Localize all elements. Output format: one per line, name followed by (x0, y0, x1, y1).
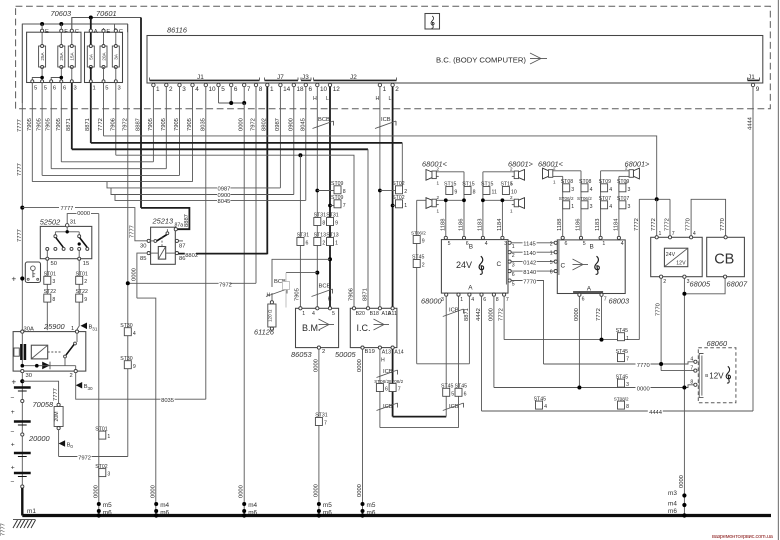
svg-text:8045: 8045 (300, 118, 306, 131)
svg-text:7972: 7972 (251, 118, 257, 131)
svg-text:J1: J1 (748, 74, 755, 81)
wire 8045 (115, 195, 306, 201)
svg-text:m5: m5 (103, 502, 112, 509)
svg-text:+: + (11, 409, 15, 416)
svg-text:8045: 8045 (218, 199, 231, 205)
svg-text:7972: 7972 (219, 282, 232, 288)
wire rear right top (601, 170, 627, 172)
svg-text:0000: 0000 (357, 484, 363, 497)
svg-text:7777: 7777 (17, 229, 23, 242)
svg-text:7905: 7905 (46, 118, 52, 131)
svg-text:A14: A14 (394, 350, 403, 356)
relay pin 85 (147, 252, 150, 255)
wire 0000 68003 pin6 (578, 296, 580, 387)
wire BCB H column (316, 87, 318, 307)
svg-text:1184: 1184 (613, 218, 619, 231)
svg-text:+: + (11, 442, 15, 449)
relay pin 30 (147, 239, 150, 242)
fusebox feed wire top (22, 24, 127, 103)
wire 7905 J1 pin3 (179, 87, 181, 176)
speaker woofer front left (426, 195, 440, 214)
svg-text:3: 3 (512, 263, 515, 269)
fuse 25A E (39, 24, 49, 83)
svg-text:B.M.: B.M. (302, 323, 321, 333)
speaker tweeter front right (510, 167, 525, 186)
68005 bottom pins (660, 275, 663, 278)
68003 left pins (554, 241, 557, 244)
svg-text:25A: 25A (59, 51, 64, 60)
svg-text:3: 3 (590, 204, 593, 210)
svg-text:A13: A13 (382, 350, 391, 356)
fuse E bottom tee to pin 5 (32, 78, 42, 82)
svg-text:20000: 20000 (28, 434, 50, 443)
fuse group box 70603 (27, 32, 81, 82)
svg-text:30A: 30A (24, 327, 34, 333)
wire 1184 column (501, 200, 503, 238)
svg-text:1186: 1186 (576, 219, 582, 231)
svg-text:0000: 0000 (488, 308, 494, 321)
svg-text:C: C (497, 261, 502, 268)
fuse F bottom tee to pin 6 (51, 78, 61, 82)
wire 0000 from relay 85 (137, 253, 147, 298)
wire 0900 column (293, 87, 295, 195)
svg-text:3: 3 (74, 86, 77, 92)
flag B0 (59, 440, 66, 447)
svg-text:0000: 0000 (357, 359, 363, 372)
svg-text:ICB: ICB (381, 117, 391, 123)
wire CB to 0000 node (684, 278, 725, 294)
svg-text:30: 30 (26, 373, 32, 379)
svg-text:1: 1 (571, 204, 574, 210)
68000 right strip (505, 241, 507, 285)
svg-text:5: 5 (332, 311, 335, 317)
svg-text:m4: m4 (668, 501, 677, 508)
svg-text:7772: 7772 (98, 118, 104, 131)
wire 68000 pin3 column (445, 296, 447, 417)
svg-text:7: 7 (604, 297, 607, 303)
antenna clef box (425, 14, 440, 30)
svg-text:7772: 7772 (665, 218, 671, 231)
K symbol BM (319, 319, 335, 330)
wire 8887 column (140, 18, 142, 208)
svg-text:31: 31 (70, 220, 76, 226)
svg-text:B20: B20 (356, 311, 365, 317)
wire 7770 to 68060 pin7 (661, 370, 694, 372)
svg-text:J7: J7 (277, 74, 284, 81)
svg-text:3: 3 (107, 472, 110, 478)
fuse 25A F (58, 24, 68, 83)
svg-text:7905: 7905 (56, 118, 62, 131)
svg-text:3: 3 (118, 86, 121, 92)
wire 7772 lower link (504, 339, 639, 341)
svg-text:1183: 1183 (477, 219, 483, 231)
svg-text:ST06/2: ST06/2 (411, 231, 426, 236)
IC top pins (352, 307, 355, 310)
wire 7905 a (31, 83, 33, 182)
svg-text:H: H (267, 293, 271, 299)
svg-text:2: 2 (169, 86, 173, 93)
switch contacts inside 52502 (66, 227, 68, 232)
svg-text:7905: 7905 (148, 118, 154, 131)
wire 4444 line (482, 410, 754, 412)
IC pin B19 ground (361, 346, 364, 349)
svg-text:15A: 15A (70, 51, 75, 60)
svg-text:8: 8 (473, 190, 476, 196)
svg-text:ST08/2: ST08/2 (388, 379, 403, 384)
IC pin A14 (391, 346, 394, 349)
svg-text:7: 7 (672, 231, 675, 237)
wire 4444 pin9 column (752, 87, 754, 411)
svg-text:1: 1 (437, 181, 440, 186)
svg-text:1: 1 (335, 241, 338, 247)
body computer box 86116 (147, 36, 763, 84)
svg-text:6: 6 (234, 86, 238, 93)
svg-text:4: 4 (312, 311, 315, 317)
68003 top pins (561, 236, 564, 239)
J1 pins 1-8,10 (152, 83, 263, 93)
svg-text:8871: 8871 (85, 118, 91, 131)
svg-text:1: 1 (71, 326, 74, 332)
wire 7905 J1 pin2 (165, 87, 167, 169)
wire 7772 68003 pin7 (601, 296, 603, 339)
svg-text:2: 2 (70, 373, 73, 379)
J7 pins (266, 83, 304, 93)
svg-text:m4: m4 (248, 502, 257, 509)
svg-text:14: 14 (283, 86, 291, 93)
svg-text:4: 4 (609, 187, 612, 193)
svg-text:7905: 7905 (174, 118, 180, 131)
wire 8802 relay to J7 (179, 253, 268, 255)
svg-text:1: 1 (602, 241, 605, 247)
wire 0987 column (279, 87, 281, 188)
fuse 20A E (100, 28, 110, 83)
svg-text:7: 7 (247, 86, 251, 93)
svg-text:68001>: 68001> (625, 160, 651, 169)
wire 7770 main line (544, 362, 694, 364)
svg-text:8: 8 (690, 380, 693, 386)
svg-text:5: 5 (44, 86, 47, 92)
wire 68000 pin1 column (458, 296, 460, 428)
svg-text:9: 9 (84, 297, 87, 303)
battery to ground bus (21, 488, 23, 516)
svg-text:0142: 0142 (523, 260, 536, 266)
svg-text:7: 7 (506, 297, 509, 303)
svg-text:m5: m5 (367, 502, 376, 509)
svg-text:C: C (561, 263, 566, 270)
pin 30 of 25900 (21, 370, 24, 373)
svg-text:4444: 4444 (748, 116, 754, 130)
wire rear right bottom (619, 175, 627, 177)
svg-text:5A: 5A (89, 53, 94, 60)
wire 0000 ground column m4 (137, 298, 156, 515)
svg-text:A11: A11 (388, 311, 397, 317)
wire 61126 branch from L (328, 257, 332, 261)
svg-text:1: 1 (156, 86, 160, 93)
svg-text:9: 9 (756, 86, 760, 93)
svg-text:5: 5 (550, 260, 553, 266)
svg-text:20M: 20M (54, 411, 60, 421)
node fuse F feed (59, 22, 63, 26)
wire speaker bottom left (417, 199, 426, 201)
svg-text:8: 8 (626, 404, 629, 410)
wire 7772 radio pin7 (503, 296, 505, 339)
K symbol IC (374, 319, 390, 330)
svg-text:12V: 12V (676, 261, 686, 267)
svg-text:4: 4 (195, 86, 199, 93)
J2 pins (316, 83, 400, 93)
wire 7905 link to J1 pin3 (42, 174, 179, 176)
svg-text:7777: 7777 (17, 119, 23, 132)
svg-text:1: 1 (626, 336, 629, 342)
svg-text:61126: 61126 (254, 328, 275, 337)
svg-text:68000: 68000 (421, 297, 442, 306)
connector strip J2 (314, 79, 397, 81)
wire 8802 column (266, 87, 268, 255)
svg-text:7: 7 (626, 357, 629, 363)
wire 0987 (107, 182, 280, 188)
68003 bottom pins (578, 293, 581, 296)
svg-text:BCB: BCB (318, 117, 330, 123)
connector strip J3 (301, 79, 311, 81)
svg-text:24V: 24V (666, 252, 676, 258)
connector ST02 2 (378, 189, 382, 193)
wire 4442 radio pin6 (481, 296, 483, 411)
svg-text:−: − (11, 479, 15, 486)
svg-text:86116: 86116 (167, 26, 188, 35)
wire 1186 column (463, 172, 465, 238)
svg-text:6: 6 (385, 387, 388, 393)
svg-text:J2: J2 (350, 74, 357, 81)
svg-text:4: 4 (690, 357, 693, 363)
svg-text:B19: B19 (365, 349, 375, 355)
svg-text:0000: 0000 (574, 308, 580, 321)
wire rear left top (555, 170, 581, 172)
svg-text:7905: 7905 (295, 288, 301, 301)
svg-text:0900: 0900 (288, 118, 294, 131)
svg-text:7770: 7770 (523, 279, 536, 285)
wire 7906 to IC B20 (116, 155, 354, 307)
svg-text:9: 9 (133, 364, 136, 370)
connector ST02 1 (391, 204, 395, 208)
svg-text:1: 1 (404, 203, 407, 209)
wire 1140 (511, 251, 554, 253)
wire 7972 bottom link (59, 456, 128, 458)
wire 1188 rear column (562, 176, 564, 238)
svg-text:5: 5 (34, 86, 37, 92)
svg-text:7772: 7772 (596, 308, 602, 321)
flag B31 (81, 323, 88, 330)
svg-text:B: B (469, 244, 473, 251)
svg-text:2: 2 (437, 195, 440, 200)
svg-text:H: H (313, 96, 317, 102)
relay switch contact (156, 234, 168, 241)
svg-text:ST08/2: ST08/2 (614, 396, 629, 401)
wire 8871 b (90, 83, 92, 143)
svg-text:2: 2 (404, 189, 407, 195)
svg-text:1140: 1140 (523, 251, 535, 257)
svg-text:ST06/2: ST06/2 (559, 196, 574, 201)
svg-text:F: F (64, 29, 68, 35)
svg-text:7772: 7772 (634, 218, 640, 231)
svg-text:0000: 0000 (93, 485, 99, 498)
wire ICB L column (392, 87, 394, 307)
wire 7772 (103, 83, 105, 136)
relay coil (158, 247, 165, 260)
svg-text:25213: 25213 (152, 216, 174, 225)
68000 top pins (444, 236, 447, 239)
wire 7770 from radio pin5 (511, 281, 543, 365)
svg-text:68007: 68007 (727, 280, 748, 289)
svg-text:E: E (45, 29, 49, 35)
svg-text:70603: 70603 (51, 9, 72, 18)
svg-text:30: 30 (88, 386, 94, 391)
node fuse A feed (89, 16, 93, 20)
svg-text:B18: B18 (370, 311, 379, 317)
svg-text:7777: 7777 (1, 523, 7, 536)
radio 68000 box (441, 240, 508, 294)
svg-text:10: 10 (320, 86, 328, 93)
wire 7772 branch b (656, 199, 658, 236)
clef glyph in box (431, 16, 434, 28)
svg-text:H: H (376, 96, 380, 102)
wire 8871 to IC B18 (72, 148, 368, 150)
svg-text:2: 2 (550, 241, 553, 247)
dashed body-computer enclosure (16, 6, 771, 109)
speaker tweeter front left (426, 167, 440, 186)
ground bus (22, 514, 771, 517)
svg-text:10: 10 (209, 86, 217, 93)
svg-text:6: 6 (550, 270, 553, 276)
svg-text:4: 4 (590, 187, 593, 193)
svg-text:−: − (11, 395, 15, 402)
svg-text:1: 1 (553, 179, 556, 184)
diode inside 25900 (42, 362, 50, 370)
svg-text:3: 3 (52, 279, 55, 285)
svg-text:52502: 52502 (40, 218, 61, 227)
svg-text:0000: 0000 (679, 475, 685, 488)
svg-text:70601: 70601 (96, 9, 117, 18)
svg-text:7770: 7770 (686, 218, 692, 231)
svg-text:8: 8 (322, 221, 325, 227)
pin 50 of 52502 (46, 250, 48, 330)
svg-text:5: 5 (105, 86, 108, 92)
clef 68060 (726, 366, 730, 383)
wire 8045 column (305, 87, 307, 201)
68003 left strip (558, 241, 560, 275)
svg-text:9: 9 (335, 221, 338, 227)
svg-text:7972: 7972 (78, 455, 91, 461)
svg-text:L: L (326, 96, 329, 102)
svg-text:68005: 68005 (690, 280, 711, 289)
wire 0000 ground column m5 (98, 214, 100, 516)
svg-text:8802: 8802 (185, 253, 198, 259)
svg-text:3: 3 (628, 187, 631, 193)
svg-text:9: 9 (422, 239, 425, 245)
fuse group box 70601 (85, 32, 123, 82)
svg-text:5: 5 (451, 391, 454, 397)
svg-text:1: 1 (659, 231, 662, 237)
battery 20000 (21, 388, 23, 489)
svg-text:31: 31 (92, 327, 98, 332)
sub box fuse C2 (115, 24, 128, 32)
svg-text:7972: 7972 (122, 118, 128, 131)
relay pin 87 (175, 239, 178, 242)
svg-text:2: 2 (512, 253, 515, 259)
connector strip J1 (150, 79, 260, 81)
wire 1188 column (445, 200, 447, 238)
svg-text:24V: 24V (456, 260, 472, 270)
pin 2 of 25900 (74, 370, 77, 373)
svg-text:m1: m1 (27, 508, 36, 515)
svg-text:25900: 25900 (43, 322, 65, 331)
wire 8871 speaker return (417, 363, 470, 365)
svg-text:H: H (328, 297, 332, 303)
resistor 61126 (270, 301, 273, 304)
svg-text:87: 87 (179, 244, 185, 250)
svg-text:0000: 0000 (313, 484, 319, 497)
svg-text:8887: 8887 (136, 118, 142, 131)
coil inside 25900 (31, 345, 47, 359)
wire 7777 to resistor (22, 381, 58, 403)
svg-text:8035: 8035 (161, 398, 174, 404)
wire 7772 branch a (638, 199, 640, 339)
wire ICB H column (379, 87, 381, 307)
svg-text:85: 85 (140, 256, 146, 262)
key pictogram (25, 262, 40, 283)
svg-text:−: − (11, 429, 15, 436)
svg-text:1: 1 (437, 209, 440, 214)
68060 pins (694, 360, 697, 363)
wire 0900 (111, 188, 294, 195)
svg-text:6: 6 (483, 297, 486, 303)
68003 bottom strip (573, 291, 603, 293)
connector ST09 7 (328, 204, 332, 208)
svg-text:4: 4 (609, 204, 612, 210)
wire 7772 arch to 68005 (639, 198, 670, 200)
svg-text:4: 4 (133, 331, 136, 337)
wire 0000 from pin31 (67, 214, 99, 224)
wire 7770 68005 pin2 (660, 278, 662, 370)
svg-text:7777: 7777 (53, 388, 59, 401)
svg-text:6: 6 (582, 297, 585, 303)
svg-text:I.C.: I.C. (357, 323, 371, 333)
module IC box (350, 308, 397, 347)
amplifier 68003 box (557, 240, 625, 294)
wire 7905 link to J1 pin2 (51, 168, 166, 170)
wire BCB L column (329, 87, 331, 307)
speaker woofer front right (510, 195, 525, 214)
svg-text:3: 3 (626, 382, 629, 388)
wire 0000 ground column J1 (243, 103, 245, 516)
svg-text:1188: 1188 (557, 219, 563, 231)
svg-text:7906: 7906 (348, 288, 354, 301)
svg-text:1183: 1183 (595, 219, 601, 231)
svg-text:15: 15 (83, 261, 89, 267)
svg-text:10: 10 (511, 190, 517, 196)
svg-text:1188: 1188 (440, 219, 446, 231)
wire 7906 (115, 83, 117, 155)
68000 right pins (508, 241, 511, 244)
clef 68000 (479, 256, 484, 274)
svg-text:1: 1 (510, 209, 513, 214)
svg-text:0: 0 (70, 444, 73, 449)
svg-text:11: 11 (492, 190, 497, 196)
svg-text:7777: 7777 (17, 163, 23, 176)
node 7906 tap to BM pin1 (298, 153, 302, 157)
converter 68005 box (651, 237, 703, 276)
svg-text:7: 7 (324, 421, 327, 427)
wire 7905 c (50, 83, 52, 169)
